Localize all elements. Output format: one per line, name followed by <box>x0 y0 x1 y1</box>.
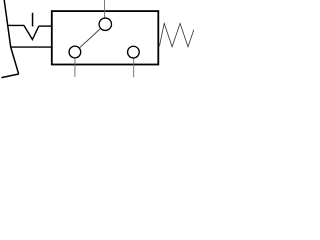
plunger stem <box>32 13 34 27</box>
contact common bottom-left <box>69 46 81 58</box>
lever horizontal link <box>7 24 24 26</box>
lever foot <box>1 74 18 78</box>
contact NO bottom-right <box>128 46 140 58</box>
switch blade <box>80 29 100 48</box>
plunger V notch <box>24 25 39 39</box>
spring zigzag <box>159 23 194 46</box>
wire lever bottom to case <box>10 46 52 48</box>
terminal lead bottom-right <box>133 58 135 77</box>
wire V-notch to case <box>39 25 53 27</box>
switch case <box>52 11 159 64</box>
micro-switch schematic <box>0 0 194 79</box>
lever lower segment <box>11 47 19 74</box>
terminal lead bottom-left <box>74 58 76 77</box>
contact NC top <box>99 18 111 30</box>
lever arm diagonal <box>4 0 11 47</box>
terminal lead top <box>104 0 106 18</box>
